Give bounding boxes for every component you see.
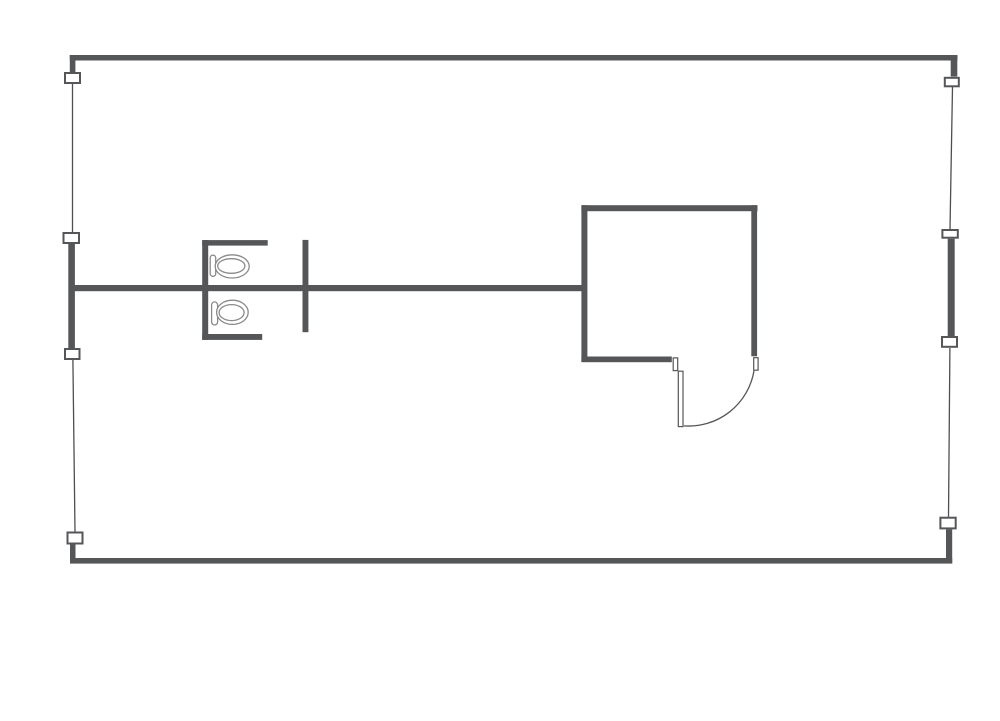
- window line right upper: [950, 87, 953, 229]
- door leaf: [678, 371, 683, 426]
- window line left upper: [72, 84, 74, 232]
- door jamb 1: [673, 358, 678, 371]
- wall right top stub: [951, 55, 958, 77]
- wall stub right of bathroom: [303, 240, 309, 332]
- window frame marker E (right top): [945, 78, 959, 87]
- window line right lower: [949, 348, 950, 517]
- toilet 2 tank (lower): [212, 302, 218, 325]
- toilet 1 bowl inner: [218, 259, 245, 274]
- toilet 1 tank (upper): [210, 255, 216, 276]
- wall top: [70, 55, 958, 61]
- wall left middle: [68, 244, 75, 348]
- toilet 2 bowl inner: [219, 305, 244, 321]
- room wall left: [581, 205, 587, 362]
- wall left bottom stub: [70, 545, 76, 564]
- toilet 1 bowl outer: [215, 255, 249, 278]
- room wall bottom: [581, 357, 671, 363]
- door swing arc: [684, 371, 754, 426]
- room wall top: [581, 205, 757, 211]
- window frame marker A (left top): [65, 73, 80, 83]
- door jamb 2: [754, 358, 758, 371]
- wall left top stub: [70, 55, 76, 72]
- window frame marker G (right mid-lower): [942, 337, 957, 347]
- wall horizontal divider: [72, 285, 582, 291]
- wall right middle: [948, 239, 955, 336]
- wall right bottom stub: [946, 529, 952, 563]
- room wall right: [751, 205, 757, 356]
- bathroom wall left: [202, 240, 208, 340]
- window frame marker B (left mid-upper): [64, 233, 80, 243]
- bathroom wall top: [202, 240, 268, 246]
- window frame marker C (left mid-lower): [65, 349, 80, 359]
- window frame marker F (right mid-upper): [942, 230, 957, 238]
- window frame marker H (right bottom): [940, 518, 955, 529]
- bathroom wall bottom: [202, 334, 262, 340]
- window line left lower: [73, 360, 75, 532]
- toilet 2 bowl outer: [217, 300, 249, 324]
- wall bottom: [70, 558, 952, 564]
- window frame marker D (left bottom): [68, 533, 83, 544]
